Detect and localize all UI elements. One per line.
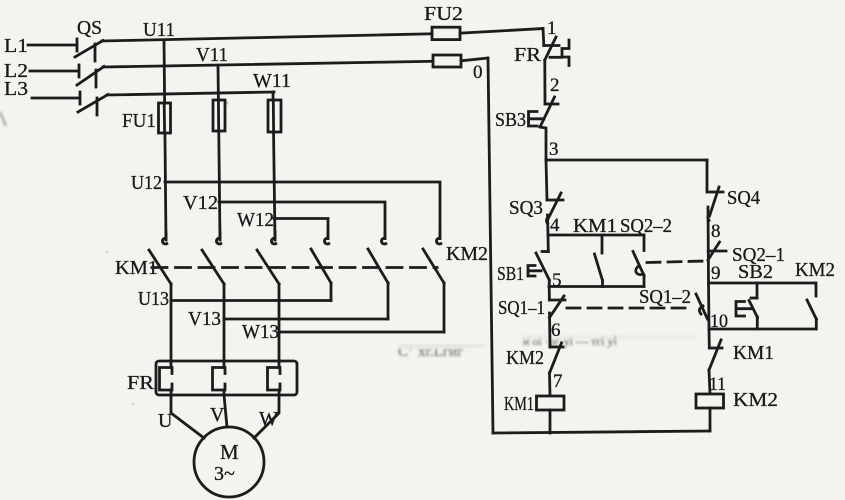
relay FR thermal element symbol <box>562 40 569 66</box>
limit switch SQ3 seat <box>547 199 563 202</box>
wire row U11 <box>102 34 432 41</box>
wire L2 input <box>30 70 78 73</box>
svg-text:SQ1–2: SQ1–2 <box>639 286 691 308</box>
relay FR NC contact seat <box>544 44 559 47</box>
wire node 2 <box>543 60 546 104</box>
contact KM1 NC seat (control right) <box>709 347 722 350</box>
limit switch SQ4 seat <box>708 191 724 194</box>
svg-text:SQ2–2: SQ2–2 <box>620 215 672 237</box>
scan speck lower left <box>132 403 135 406</box>
svg-text:7: 7 <box>553 371 563 392</box>
limit switch SQ1-1 blade <box>550 296 565 318</box>
wire contact2 bottom to FR <box>223 284 226 361</box>
wire node4 to SB1 <box>547 235 550 252</box>
main contacts mechanical linkage dashed <box>152 266 437 269</box>
contactor KM1 main contact 3 hook <box>274 232 277 239</box>
FR heater element 1 <box>160 368 173 391</box>
wire U13 <box>171 299 331 302</box>
scan speck near V fuse <box>225 101 228 104</box>
wire contact5 bottom <box>387 283 390 319</box>
wire node10 to KM1 NC <box>708 329 711 348</box>
svg-text:3: 3 <box>549 139 559 160</box>
wire U phase vertical (row1 to contact) <box>164 40 166 240</box>
wire KM1 coil to bottom <box>549 410 552 433</box>
svg-text:W: W <box>259 408 278 430</box>
contactor KM2 main contact 6 hook <box>439 232 442 239</box>
limit switch SQ2-2 bottom <box>643 276 646 287</box>
wire node3 to SQ3 <box>546 160 547 200</box>
wire row V11 <box>103 61 433 67</box>
contact KM2 aux NO blade <box>807 300 816 319</box>
wire L1 input <box>28 44 76 47</box>
wire V13 <box>224 318 388 321</box>
wire node5 to SQ1-1 <box>548 287 551 301</box>
svg-text:KM2: KM2 <box>795 259 835 281</box>
svg-text:V11: V11 <box>196 44 228 66</box>
svg-text:W11: W11 <box>253 70 291 92</box>
wire node 9 branch line <box>709 282 816 285</box>
svg-text:U13: U13 <box>138 288 169 310</box>
svg-text:10: 10 <box>710 311 728 332</box>
svg-text:KM2: KM2 <box>733 389 778 411</box>
svg-text:KM1: KM1 <box>504 393 534 415</box>
button SB1 top tick <box>542 250 548 253</box>
wire U12 <box>165 182 440 236</box>
switch QS pole 1 blade <box>75 41 103 58</box>
wire KM2 aux bottom <box>815 319 818 329</box>
svg-text:SB2: SB2 <box>738 261 773 283</box>
scan speck mid left <box>106 251 109 254</box>
wire contact6 bottom <box>443 283 446 332</box>
button SB2 drop <box>756 283 759 298</box>
svg-text:SQ1–1: SQ1–1 <box>498 297 545 319</box>
wire node 3 branch <box>546 159 707 162</box>
wire node 11 <box>709 370 710 394</box>
switch QS pole 3 blade <box>78 95 108 113</box>
wire SB2 bottom <box>756 317 759 329</box>
svg-text:QS: QS <box>77 17 102 39</box>
button SB2 top tick <box>751 297 757 300</box>
wire contact1 bottom to FR <box>170 284 173 361</box>
svg-text:SQ4: SQ4 <box>727 187 760 209</box>
svg-text:9: 9 <box>711 263 721 284</box>
contactor KM2 main contact 6 blade <box>423 249 444 283</box>
svg-text:KM1: KM1 <box>733 342 774 364</box>
svg-text:3~: 3~ <box>214 463 235 485</box>
wire node 9 <box>707 251 710 283</box>
wire W13 <box>279 331 444 334</box>
wire node 3 vertical <box>540 127 546 160</box>
wire W phase vertical (row3 to contact) <box>273 92 275 240</box>
wire node 4 vertical <box>546 215 549 235</box>
contactor KM2 main contact 5 blade <box>368 249 388 283</box>
wire node 8 <box>707 207 710 251</box>
contact KM2 NC blade (control) <box>550 343 562 373</box>
contactor KM1 main contact 3 blade <box>257 250 279 284</box>
coil KM1 <box>537 396 565 410</box>
svg-text:5: 5 <box>552 270 562 291</box>
svg-text:U: U <box>158 410 173 432</box>
limit switch SQ2-1 seat <box>708 250 726 253</box>
limit switch SQ4 blade <box>708 187 719 220</box>
button SB3 NC blade <box>540 97 555 127</box>
svg-text:V13: V13 <box>188 308 221 330</box>
wire node3 right vertical to SQ4 <box>706 160 709 192</box>
wire W12 <box>274 219 328 237</box>
FR heater element 2 <box>213 368 226 391</box>
fuse FU1 V-phase <box>213 100 225 131</box>
wire contact3 bottom to FR <box>278 284 281 361</box>
wire KM2 coil to bottom <box>709 408 712 431</box>
contactor KM2 main contact 4 blade <box>311 249 331 283</box>
fuse FU1 U-phase <box>159 103 171 133</box>
svg-text:KM2: KM2 <box>446 243 488 265</box>
svg-text:L1: L1 <box>4 35 28 57</box>
motor M circle <box>194 427 264 497</box>
wire 0 line vertical <box>488 58 493 433</box>
wire V phase vertical (row2 to contact) <box>218 66 220 240</box>
svg-text:SQ3: SQ3 <box>509 197 543 219</box>
contact KM2 NC seat (control) <box>550 346 563 349</box>
button SB1 blade <box>536 253 549 280</box>
fuse FU1 W-phase <box>268 100 281 132</box>
svg-text:L3: L3 <box>4 78 28 100</box>
contactor KM1 main contact 1 hook <box>165 232 168 239</box>
fuse FU2 lower <box>433 55 461 67</box>
wire node1 vertical <box>542 29 546 46</box>
button SB1 actuator E <box>528 266 541 277</box>
svg-text:KM1: KM1 <box>115 257 158 279</box>
svg-text:и̇ оі ·рг·уі — тгї уا: и̇ оі ·рг·уі — тгї уا <box>523 334 617 348</box>
svg-text:FR: FR <box>514 44 542 66</box>
contactor KM2 main contact 5 hook <box>384 232 387 239</box>
coil KM2 <box>696 394 724 408</box>
svg-text:0: 0 <box>473 62 483 83</box>
wire bottom rail <box>493 431 710 433</box>
button SB3 NC seat <box>545 103 558 106</box>
switch QS linkage bars <box>94 44 97 61</box>
wire row W11 <box>107 92 274 95</box>
svg-text:KM2: KM2 <box>506 347 544 369</box>
svg-text:2: 2 <box>550 75 560 96</box>
limit switch SQ2-2 blade with hook <box>633 252 644 276</box>
svg-text:SB1: SB1 <box>497 263 524 285</box>
wire V12 <box>219 202 385 236</box>
switch QS pole 1 fixed contact tick <box>76 39 79 51</box>
svg-text:4: 4 <box>550 215 560 236</box>
wire L3 input <box>32 97 79 100</box>
switch QS pole 2 fixed contact tick <box>78 65 81 77</box>
svg-text:8: 8 <box>711 221 721 242</box>
contact KM2 aux NO drop <box>815 283 818 296</box>
wire FR to motor U <box>171 395 204 438</box>
svg-text:FU2: FU2 <box>424 3 463 25</box>
contactor KM1 main contact 1 blade <box>149 250 171 284</box>
svg-text:KM1: KM1 <box>573 215 617 237</box>
switch QS pole 2 blade <box>77 67 104 86</box>
switch QS pole 3 fixed contact tick <box>79 92 82 104</box>
wire node 4 branch line <box>548 234 644 237</box>
contactor KM2 main contact 4 hook <box>327 232 330 239</box>
limit switch SQ1-2 blade with hook <box>696 294 708 319</box>
svg-text:FR: FR <box>127 372 155 394</box>
svg-text:11: 11 <box>709 374 726 395</box>
fuse FU2 upper <box>432 27 460 39</box>
wire node 10 branch line <box>709 328 816 331</box>
limit switch SQ2-2 drop <box>643 235 646 251</box>
wire FR to motor W <box>254 395 279 438</box>
wire contact4 bottom <box>330 283 333 301</box>
relay FR NC contact blade <box>545 37 556 60</box>
wire node 5 branch line <box>549 285 644 288</box>
contact KM1 aux NO blade <box>595 254 603 281</box>
scan watermark ghost left chunk <box>398 334 697 360</box>
thermal relay FR box <box>156 361 297 395</box>
limit switch SQ1-1 seat <box>549 299 565 302</box>
contact KM1 aux NO bottom <box>601 281 604 287</box>
dashed link SQ1-1 to SQ1-2 <box>567 307 692 310</box>
svg-text:W12: W12 <box>237 209 274 231</box>
limit switch SQ3 blade <box>546 193 561 223</box>
svg-text:1: 1 <box>547 18 557 39</box>
svg-text:M: M <box>220 440 239 464</box>
wire FR to motor V <box>224 395 227 427</box>
contactor KM1 main contact 2 blade <box>202 250 224 284</box>
button SB2 actuator E <box>736 302 751 317</box>
svg-text:6: 6 <box>551 320 561 341</box>
button SB2 blade <box>749 301 757 318</box>
dashed link SQ2-2 to SQ2-1 <box>647 261 706 263</box>
wire node 6 <box>548 313 551 347</box>
limit switch SQ2-1 blade <box>708 242 720 260</box>
contact KM1 aux NO drop <box>601 235 604 253</box>
svg-text:V12: V12 <box>183 192 218 214</box>
svg-text:U12: U12 <box>131 172 162 194</box>
wire SB1 to node 5 <box>548 280 551 287</box>
FR heater element 3 <box>268 368 281 391</box>
svg-text:U11: U11 <box>143 19 175 41</box>
svg-text:V: V <box>210 404 225 426</box>
wire node 7 <box>548 373 551 396</box>
wire SQ1-2 vertical <box>707 283 710 329</box>
svg-text:W13: W13 <box>242 321 279 343</box>
svg-text:FU1: FU1 <box>122 110 156 132</box>
contact KM1 NC blade (control right) <box>709 340 721 370</box>
scan speck left edge <box>0 112 6 126</box>
button SB3 actuator E <box>529 112 545 127</box>
svg-text:SB3: SB3 <box>495 109 526 131</box>
contactor KM1 main contact 2 hook <box>219 232 222 239</box>
